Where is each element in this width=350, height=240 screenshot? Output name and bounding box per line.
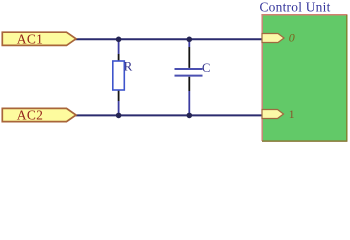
capacitor C: [175, 47, 211, 91]
wire vertical stub (bottom of R): [118, 101, 120, 115]
svg-text:C: C: [202, 61, 210, 75]
svg-text:1: 1: [289, 109, 295, 121]
wire vertical stub (bottom of C): [188, 91, 190, 115]
pin 0 of Control Unit: [262, 30, 295, 44]
node AC1 terminal flag: [2, 31, 76, 46]
wire net AC2 (bottom horizontal): [75, 114, 263, 116]
resistor R: [113, 54, 133, 101]
junction dot top-C: [187, 37, 193, 43]
wire net AC1 (top horizontal): [75, 38, 263, 40]
svg-text:Control Unit: Control Unit: [260, 0, 331, 14]
junction dot bottom-R: [116, 113, 122, 119]
svg-text:R: R: [124, 58, 133, 73]
junction dot bottom-C: [187, 113, 193, 119]
wire vertical stub (top of R): [118, 39, 120, 54]
junction dot top-R: [116, 37, 122, 43]
pin 1 of Control Unit: [262, 109, 295, 121]
svg-text:AC2: AC2: [17, 108, 43, 123]
svg-text:AC1: AC1: [17, 31, 43, 46]
svg-text:0: 0: [289, 30, 295, 44]
subcircuit box Control Unit: [260, 0, 348, 141]
node AC2 terminal flag: [2, 108, 76, 123]
wire vertical stub (top of C): [188, 39, 190, 47]
